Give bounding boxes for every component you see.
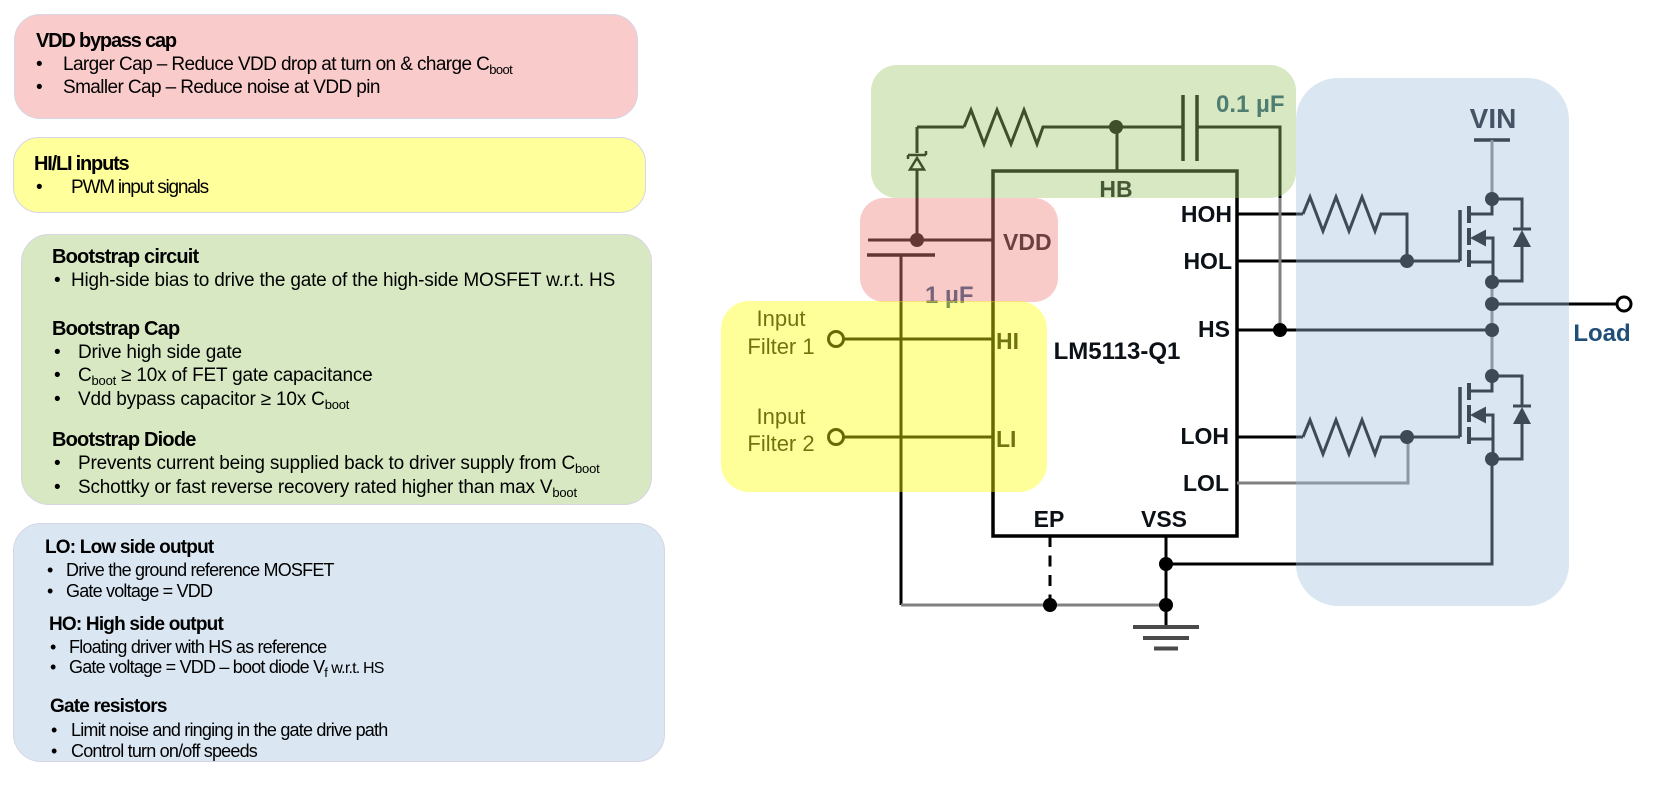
wire gray EP/ground run <box>901 604 1166 607</box>
annotation box: outputs (blue) <box>13 523 665 762</box>
wire top bootstrap loop left <box>917 126 964 129</box>
wire EP dashed <box>1049 536 1052 605</box>
node dot VSS-source <box>1159 557 1173 571</box>
bootstrap diode D1 <box>916 127 919 153</box>
resistor Rhoh <box>1303 197 1407 261</box>
load terminal <box>1617 297 1631 311</box>
wire gray HB-HS link <box>1279 198 1282 330</box>
wire low side source to VSS <box>1166 459 1492 564</box>
node dot bootstrap top <box>1109 120 1123 134</box>
node dot EP ground <box>1043 598 1057 612</box>
highlight overlay green (bootstrap) <box>871 65 1296 198</box>
wire LOH pin <box>1237 436 1303 439</box>
svg-text:HS: HS <box>1198 316 1230 342</box>
wire HB stub <box>1116 127 1119 171</box>
svg-text:LM5113-Q1: LM5113-Q1 <box>1054 338 1181 365</box>
wire VDD pin <box>868 239 993 242</box>
body diode Q1 <box>1492 199 1522 281</box>
resistor Rloh <box>1303 420 1460 454</box>
annotation box: VDD bypass cap (pink) <box>14 14 638 119</box>
MOSFET Q2 low side <box>1469 376 1492 391</box>
node dot Q1 source <box>1485 275 1499 289</box>
capacitor Cvdd 1uF bottom plate <box>867 253 935 257</box>
wire VIN bar <box>1474 138 1510 142</box>
body diode Q2 <box>1492 376 1522 459</box>
input terminal circle 2 <box>829 430 844 445</box>
wire cap to corner <box>1197 127 1280 198</box>
node dot VDD <box>910 233 924 247</box>
node dot load <box>1485 297 1499 311</box>
wire gray LOL pin <box>1237 437 1408 483</box>
node dot Q2 drain <box>1485 369 1499 383</box>
svg-text:HOH: HOH <box>1181 201 1232 227</box>
node dot LOH gate <box>1400 430 1414 444</box>
highlight overlay yellow (inputs) <box>721 301 1047 492</box>
wire gray VIN lead <box>1491 140 1494 199</box>
IC LM5113-Q1 body <box>993 171 1237 536</box>
svg-text:LOH: LOH <box>1180 423 1229 449</box>
node dot switch node HS wire <box>1485 323 1499 337</box>
wire load tap <box>1492 303 1617 306</box>
wire HOL pin to gate <box>1237 260 1460 263</box>
wire HOH pin <box>1237 213 1303 216</box>
highlight overlay pink (VDD cap) <box>860 198 1058 302</box>
annotation box: Bootstrap circuit (green) <box>21 234 652 505</box>
node dot Q1 drain <box>1485 192 1499 206</box>
svg-text:LOL: LOL <box>1183 470 1229 496</box>
wire LI input <box>844 436 993 439</box>
wire cap lead down <box>900 255 903 605</box>
node dot Q2 source <box>1485 452 1499 466</box>
node dot HS <box>1273 323 1287 337</box>
ground symbol <box>1133 627 1199 649</box>
annotation box: HI/LI inputs (yellow) <box>13 137 646 213</box>
svg-text:VSS: VSS <box>1141 506 1187 532</box>
svg-text:Load: Load <box>1573 320 1630 347</box>
label Input Filter 1 <box>747 306 814 456</box>
highlight overlay blue (power stage) <box>1296 78 1569 606</box>
input terminal circle 1 <box>829 332 844 347</box>
wire gray switch node rail <box>1491 282 1494 376</box>
node dot VSS ground <box>1159 598 1173 612</box>
MOSFET Q1 high side <box>1469 199 1492 214</box>
svg-text:HOL: HOL <box>1183 248 1232 274</box>
capacitor Cboot 0.1uF plates <box>1183 95 1197 161</box>
wire VSS pin to ground <box>1165 536 1168 626</box>
resistor Rboot <box>964 110 1183 144</box>
node dot HOL gate <box>1400 254 1414 268</box>
wire HI input <box>844 338 993 341</box>
wire HS pin <box>1237 329 1492 332</box>
svg-text:EP: EP <box>1034 506 1065 532</box>
